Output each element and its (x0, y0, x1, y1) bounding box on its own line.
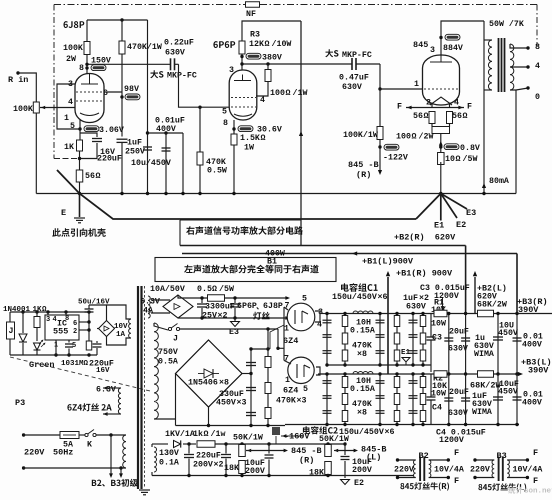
svg-text:son.net: son.net (524, 488, 552, 496)
svg-text:MKP-FC: MKP-FC (167, 71, 197, 80)
svg-text:Ω: Ω (84, 360, 89, 368)
wire heater dc plus rail (178, 295, 207, 298)
resistor 1K cathode (77, 140, 83, 151)
wire 6Z4 lower plate (284, 360, 291, 364)
resistor 1K ohm (36, 312, 38, 316)
resistor 0.5 ohm/5W (208, 295, 225, 302)
capacitor 10U 450V (497, 314, 499, 375)
svg-text:5: 5 (302, 294, 307, 303)
svg-text:884V: 884V (443, 44, 463, 53)
wire grid drop 6P6P (179, 64, 232, 107)
svg-text:68K/2W: 68K/2W (470, 380, 502, 390)
resistor 470K 0.5W grid leak (199, 107, 201, 152)
wire HV bottom bus (176, 425, 286, 427)
capacitor 10uF 450V row2 (497, 374, 499, 425)
svg-text:845 -B: 845 -B (348, 160, 379, 170)
wire bus1 B rail (327, 313, 552, 315)
LED green (34, 343, 41, 350)
capacitor C3 arrow (442, 298, 444, 308)
transformer B1 core (137, 286, 139, 489)
resistor 470Kx8 column A (344, 314, 346, 366)
svg-text:845: 845 (413, 40, 428, 50)
wire 6Z4 lower cathode to bus2 (316, 367, 320, 374)
transformer T-OUT secondary (510, 44, 514, 90)
node port 150V (86, 55, 88, 75)
svg-text:MKP-FC: MKP-FC (342, 51, 372, 60)
resistor row2 column B (396, 374, 398, 425)
tube V1 6Z4 upper (287, 303, 315, 331)
svg-text:Ω: Ω (424, 112, 429, 121)
svg-text:E: E (61, 208, 66, 218)
svg-text:20uF: 20uF (449, 388, 469, 397)
resistor 100 ohm/1W screen (267, 64, 269, 69)
wire grid return box pin3 (57, 84, 80, 129)
svg-text:Ω: Ω (286, 89, 291, 98)
wire bus2 rail row2 top (318, 373, 519, 375)
resistor 100K 2W anode load (84, 42, 90, 55)
resistor 18K right (239, 461, 246, 474)
IC U4 555 (45, 315, 79, 340)
svg-text:×6: ×6 (378, 293, 388, 302)
ground E chassis (78, 192, 81, 195)
resistor row2 column E2 (422, 374, 424, 425)
svg-text:3300uF: 3300uF (205, 302, 235, 311)
node port 30.6V cathode 6P6P (233, 120, 235, 134)
capacitor 10uF 200V right (268, 444, 270, 454)
capacitor 0.22uF 630V MKP coupling (87, 63, 170, 65)
svg-text:1uF: 1uF (127, 138, 142, 147)
capacitor group C1 column A (326, 314, 328, 366)
bridge rectifier 1N5406x8 (176, 340, 243, 407)
resistor R1 10K 10W (434, 310, 447, 317)
wire +B1(L) 900V rail (182, 253, 517, 255)
svg-text:100K: 100K (63, 44, 83, 53)
svg-text:56: 56 (452, 112, 462, 121)
svg-text:100K: 100K (13, 105, 33, 114)
svg-text:C4: C4 (432, 403, 442, 412)
switch K (79, 434, 85, 436)
node port 884V anode (441, 21, 484, 56)
svg-text:0.1A: 0.1A (159, 458, 179, 467)
wire primary bottom to bus 80mA (483, 90, 485, 194)
svg-text:6J8P: 6J8P (263, 302, 283, 311)
svg-text:1KV/1A: 1KV/1A (165, 429, 195, 439)
svg-text:1: 1 (414, 80, 419, 89)
wire 845-B R rail to top (343, 442, 346, 445)
svg-text:Ω: Ω (456, 155, 461, 164)
svg-text:/2W: /2W (419, 131, 434, 141)
bridge rectifier 10A/50V (163, 295, 193, 318)
svg-text:/1w: /1w (211, 429, 226, 439)
label box left channel (155, 258, 336, 282)
svg-text:25V: 25V (202, 311, 217, 320)
svg-text:103: 103 (61, 360, 75, 368)
svg-text:0.15A: 0.15A (350, 326, 375, 335)
capacitor 0.01 400V right (516, 314, 518, 375)
wire 0-tap to ground bus (515, 90, 517, 194)
capacitor 3300uF 25V x2 left (201, 298, 203, 303)
svg-text:(R): (R) (299, 455, 314, 465)
svg-text:150u/450V: 150u/450V (332, 292, 377, 302)
svg-text:1: 1 (64, 114, 69, 123)
inductor choke 10H 0.15A lower (353, 372, 373, 375)
resistor 68K/2W lower (478, 371, 494, 378)
svg-text:4A: 4A (143, 306, 153, 315)
wire cathode to bus junction (440, 162, 442, 194)
wire mains 220V input (22, 433, 25, 436)
svg-text:220uF: 220uF (196, 451, 221, 460)
wire mains neutral (22, 466, 25, 469)
wire right channel label box (179, 220, 181, 246)
svg-text:B3: B3 (497, 451, 507, 461)
wire pot wiper to grid pin 4 (40, 107, 75, 109)
svg-text:10u/450V: 10u/450V (131, 158, 171, 168)
svg-text:8: 8 (223, 119, 228, 128)
node port 380V (241, 54, 243, 71)
svg-text:1N4001: 1N4001 (3, 306, 31, 314)
svg-text:68K/2W: 68K/2W (477, 299, 507, 309)
capacitor 20uF col 464 (465, 314, 467, 375)
svg-text:50Hz: 50Hz (53, 447, 73, 457)
svg-text:5: 5 (222, 107, 227, 116)
svg-text:6: 6 (73, 320, 77, 328)
svg-text:200V: 200V (193, 460, 213, 469)
node R in terminal (16, 71, 19, 74)
svg-text:1A: 1A (116, 331, 126, 339)
wire pot bottom to ground bus (35, 113, 37, 194)
capacitor 3300uF 25V x2 right (234, 298, 236, 303)
svg-text:NF: NF (246, 10, 256, 19)
diode 1N4001 (22, 312, 24, 333)
capacitor 0.01 400V row2 (516, 374, 518, 425)
transformer B1 heater 6.3V winding left (118, 388, 121, 414)
svg-text:×8: ×8 (357, 350, 367, 359)
svg-text:10W: 10W (431, 319, 446, 328)
svg-text:630V: 630V (342, 83, 362, 92)
wire heater dc minus rail (178, 317, 288, 319)
wire main ground bus (36, 193, 441, 195)
wire 845 grid (380, 64, 423, 89)
label C2 group (303, 426, 338, 434)
resistor 56 ohm right (447, 112, 453, 124)
svg-text:×8: ×8 (219, 378, 229, 387)
svg-text:630V: 630V (448, 344, 468, 353)
svg-text:630V: 630V (448, 409, 468, 418)
svg-text:12K: 12K (249, 40, 264, 49)
resistor 10 ohm/5W cathode (438, 153, 445, 165)
svg-text:10V/4A: 10V/4A (513, 464, 543, 474)
svg-text:8: 8 (65, 315, 69, 323)
svg-text:470K: 470K (276, 396, 296, 405)
svg-text:P3: P3 (15, 398, 25, 408)
capacitor 50u/16V (88, 305, 90, 309)
svg-text:250V: 250V (125, 147, 145, 156)
wire bridge bottom to bus (208, 407, 210, 426)
resistor 56 ohm (76, 170, 83, 182)
wire vertical filter column (147, 20, 149, 194)
transformer T-OUT 50W/7K primary (483, 21, 485, 40)
capacitor 10u/450V (143, 146, 152, 148)
fuse 5A (60, 432, 79, 439)
wire NF dash-dot right drop to 8ohm tap (536, 5, 538, 47)
svg-text:4: 4 (454, 98, 459, 107)
svg-text:WIMA: WIMA (474, 350, 494, 359)
resistor 470Kx8 column B (396, 314, 398, 366)
svg-text:400V: 400V (156, 125, 176, 134)
wire bus3 rail (285, 424, 519, 426)
capacitor group C2 column A (326, 374, 328, 425)
svg-text:100K/1W: 100K/1W (343, 130, 378, 140)
transformer B3 filament (492, 460, 494, 478)
resistor 68K/2W upper (478, 310, 494, 317)
svg-text:390V: 390V (518, 305, 539, 315)
svg-text:390V: 390V (528, 365, 549, 375)
capacitor C 1uF 250V (117, 138, 128, 140)
svg-text:3: 3 (430, 46, 435, 55)
wire heavy diagonal to star (416, 194, 441, 220)
svg-text:630V: 630V (165, 48, 185, 57)
wire 555 pins 6 2 to cap (79, 321, 89, 323)
svg-text:450V: 450V (498, 387, 518, 396)
svg-text:6: 6 (103, 89, 108, 98)
wire winding to bridge (151, 299, 170, 301)
tube V2 6Z4 lower (288, 357, 314, 383)
label -160V (281, 435, 303, 437)
wire HV feed to 6Z4 plates (278, 329, 284, 348)
svg-text:F: F (533, 476, 538, 486)
svg-text:400V: 400V (522, 398, 542, 407)
svg-text:555: 555 (53, 326, 68, 336)
potentiometer 100K volume (33, 102, 39, 113)
svg-text:+B1(L)900V: +B1(L)900V (362, 256, 414, 266)
capacitor row2 column E (412, 374, 414, 425)
svg-text:/10W: /10W (272, 39, 292, 49)
svg-text:×3: ×3 (297, 396, 307, 405)
svg-text:E2: E2 (354, 479, 364, 488)
svg-text:0.22uF: 0.22uF (164, 38, 194, 47)
svg-text:2W: 2W (66, 55, 76, 64)
svg-text:Ω: Ω (96, 172, 101, 181)
svg-text:R3: R3 (250, 30, 260, 39)
svg-text:E3: E3 (466, 208, 476, 218)
transformer B2 filament (414, 460, 416, 478)
capacitor 330uF 450V x3 stack (246, 362, 256, 364)
wire 0.01uF branch (148, 132, 184, 134)
svg-text:/5W: /5W (219, 284, 234, 294)
svg-text:K: K (87, 440, 92, 449)
svg-text:220V: 220V (394, 465, 414, 474)
node E1 E2 E3 star junction (440, 194, 442, 221)
wire NF feedback dash-dot top border (54, 4, 245, 6)
wire dashed link to mains switch (10, 357, 150, 391)
capacitor 0.47uF 630V MKP coupling 845 (351, 58, 353, 70)
wire top rail 6J8P (87, 19, 148, 21)
relay J box (7, 322, 15, 339)
svg-text:750V: 750V (158, 348, 178, 357)
svg-text:10V: 10V (114, 323, 128, 331)
svg-text:5: 5 (303, 385, 308, 394)
wire 6Z4 upper plate (284, 307, 288, 310)
svg-text:E1: E1 (434, 220, 444, 230)
svg-text:1: 1 (285, 376, 290, 385)
wire 1uF to ground bus (121, 143, 123, 194)
capacitor 220uF 200Vx2 left (188, 444, 190, 454)
bridge rectifier 10V 1A small (99, 321, 115, 337)
wire secondary taps (510, 44, 528, 48)
svg-text:Ω: Ω (412, 132, 417, 141)
svg-text:J: J (173, 334, 178, 343)
resistor 18K left (325, 462, 332, 475)
wire 220uF bottom join (80, 143, 98, 159)
inductor choke 10H 0.15A upper (353, 311, 373, 314)
wire 470K to plate node 98V (121, 54, 123, 137)
svg-text:3: 3 (46, 316, 50, 324)
svg-text:E2: E2 (456, 220, 466, 230)
svg-text:6Z4: 6Z4 (283, 336, 298, 346)
wire heavy chassis diagonal (57, 170, 416, 219)
wire 6Z4 upper cathode to bus1 (315, 311, 320, 314)
capacitor 0.01uF 400V (165, 133, 167, 194)
svg-text:630V: 630V (406, 302, 426, 311)
svg-text:16V: 16V (96, 367, 110, 375)
wire wiper 845-B L (338, 450, 356, 452)
wire 555 top rail (10, 311, 89, 313)
svg-text:6P6P: 6P6P (237, 302, 257, 311)
svg-text:B1: B1 (267, 257, 277, 266)
wire wiper 845-B R (246, 450, 286, 452)
resistor 470K/1W (119, 41, 125, 54)
svg-text:WIMA: WIMA (472, 408, 492, 417)
transformer B1 750V winding (154, 323, 158, 419)
svg-text:+B2(R) 620V: +B2(R) 620V (394, 232, 456, 242)
svg-text:10V/4A: 10V/4A (434, 464, 464, 474)
svg-text:J: J (9, 327, 14, 336)
wire 555 bottom rail (10, 354, 97, 356)
capacitor C4 coupling (430, 374, 432, 397)
wire +B2(R) 620V rail (180, 245, 466, 247)
svg-text:2: 2 (73, 328, 77, 336)
ground E3 heater (234, 318, 236, 322)
svg-text:200V: 200V (245, 467, 265, 476)
node port -122V bias feed (379, 140, 381, 150)
svg-text:F: F (454, 448, 459, 458)
resistor 1.5K ohm 1W cathode (231, 134, 237, 145)
wire +B2(L) arrow feed (474, 277, 476, 314)
svg-text:4: 4 (535, 62, 540, 71)
svg-text:×8: ×8 (357, 408, 367, 417)
svg-text:220V: 220V (470, 465, 490, 474)
transformer B1 130V winding (154, 447, 157, 472)
svg-text:4: 4 (260, 96, 265, 105)
switch J HV (154, 323, 168, 330)
svg-text:0.47uF: 0.47uF (339, 73, 369, 82)
transformer B1 6.3V 4A winding (148, 296, 150, 318)
capacitor 630V col 448 (448, 314, 450, 375)
svg-text:20uF: 20uF (449, 327, 469, 336)
svg-text:1: 1 (284, 324, 289, 333)
capacitor 630V col 448 row2 (448, 374, 450, 425)
svg-text:×2: ×2 (218, 311, 228, 320)
wire right filter drop (182, 133, 184, 194)
transformer B1 primary winding (123, 435, 126, 468)
svg-text:R in: R in (8, 75, 28, 85)
capacitor group C1 column B (379, 314, 381, 366)
svg-text:470K/1W: 470K/1W (127, 42, 162, 52)
svg-text:×3: ×3 (237, 398, 247, 407)
svg-text:F: F (533, 448, 538, 458)
svg-text:Ω: Ω (204, 430, 209, 439)
svg-text:-122V: -122V (383, 153, 408, 162)
svg-text:Ω: Ω (265, 40, 270, 49)
wire B2 B3 primary feed (109, 433, 112, 436)
wire to 845-B R bias rail (379, 149, 381, 172)
wire winding bottom to bridge left (154, 418, 176, 420)
svg-text:100: 100 (396, 132, 411, 141)
svg-text:6.3V: 6.3V (140, 297, 160, 306)
svg-text:×2: ×2 (214, 460, 224, 469)
svg-text:1W: 1W (244, 143, 254, 152)
svg-text:450V: 450V (498, 329, 518, 338)
svg-text:×6: ×6 (385, 428, 395, 437)
svg-text:0.5W: 0.5W (207, 166, 227, 175)
svg-text:1200V: 1200V (439, 436, 464, 445)
svg-text:+B1(R) 900V: +B1(R) 900V (396, 268, 453, 278)
svg-text:Green: Green (29, 360, 55, 370)
svg-text:Ω: Ω (463, 112, 468, 121)
svg-text:B2: B2 (419, 451, 429, 461)
capacitor 1uFx2 630V column (412, 314, 414, 366)
resistor R3 12K/10W anode (239, 41, 245, 54)
svg-text:0.5: 0.5 (197, 285, 212, 294)
transformer core (498, 38, 500, 92)
svg-text:Ω: Ω (212, 285, 217, 294)
resistor 470Kx3 bleeder stack (267, 349, 269, 426)
svg-text:450V: 450V (216, 398, 236, 407)
wire heater F line (406, 107, 464, 109)
svg-text:3.06V: 3.06V (99, 126, 124, 135)
svg-text:130V: 130V (159, 449, 179, 458)
svg-text:1K: 1K (64, 143, 74, 152)
svg-text:8: 8 (535, 43, 540, 52)
svg-text:10: 10 (445, 155, 455, 164)
tube U1 6J8P (75, 74, 104, 123)
svg-text:6Z4: 6Z4 (283, 385, 298, 395)
svg-text:200V: 200V (352, 466, 372, 475)
capacitor 10uF 200V left (344, 444, 346, 455)
svg-text:56: 56 (413, 112, 423, 121)
svg-text:50K/1W: 50K/1W (319, 434, 349, 444)
svg-text:845 -B: 845 -B (291, 446, 322, 456)
svg-text:80mA: 80mA (489, 177, 509, 186)
svg-text:6.3V: 6.3V (96, 385, 116, 394)
resistor 1M ohm (86, 341, 92, 350)
svg-text:1k: 1k (193, 429, 203, 439)
node port 0.8V cathode (440, 134, 442, 153)
svg-text:F: F (467, 102, 472, 111)
svg-text:8: 8 (79, 64, 84, 73)
svg-text:0.8V: 0.8V (460, 144, 480, 153)
capacitor 220uF 16V bold (96, 341, 98, 343)
wire bridge to 10V winding (97, 328, 99, 330)
wire plate node to screen resistor and coupling (242, 63, 352, 65)
wire pin6 plate to node (104, 91, 122, 93)
capacitor 103 (68, 340, 70, 343)
wire bias ground bus (151, 472, 153, 476)
transformer B1 shield dashed (144, 286, 146, 488)
svg-text:380V: 380V (262, 53, 282, 62)
resistor 56 ohm left (429, 112, 435, 124)
svg-text:C3: C3 (432, 333, 442, 342)
